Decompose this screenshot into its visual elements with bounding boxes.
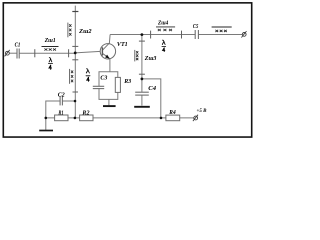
svg-text:R3: R3 — [123, 79, 131, 85]
svg-text:R1: R1 — [58, 110, 64, 116]
svg-text:R4: R4 — [168, 110, 175, 116]
svg-text:C2: C2 — [58, 92, 65, 98]
svg-text:C5: C5 — [193, 24, 198, 30]
svg-text:Zш1: Zш1 — [44, 38, 56, 44]
svg-text:Zш2: Zш2 — [78, 29, 91, 35]
svg-text:VT1: VT1 — [117, 42, 128, 48]
svg-text:C4: C4 — [148, 86, 156, 92]
svg-text:Zш4: Zш4 — [157, 21, 168, 27]
svg-text:R2: R2 — [81, 110, 89, 116]
svg-text:C3: C3 — [100, 75, 107, 81]
svg-text:+5 В: +5 В — [197, 108, 207, 114]
svg-text:C1: C1 — [15, 43, 21, 49]
svg-text:Zш3: Zш3 — [144, 56, 157, 62]
